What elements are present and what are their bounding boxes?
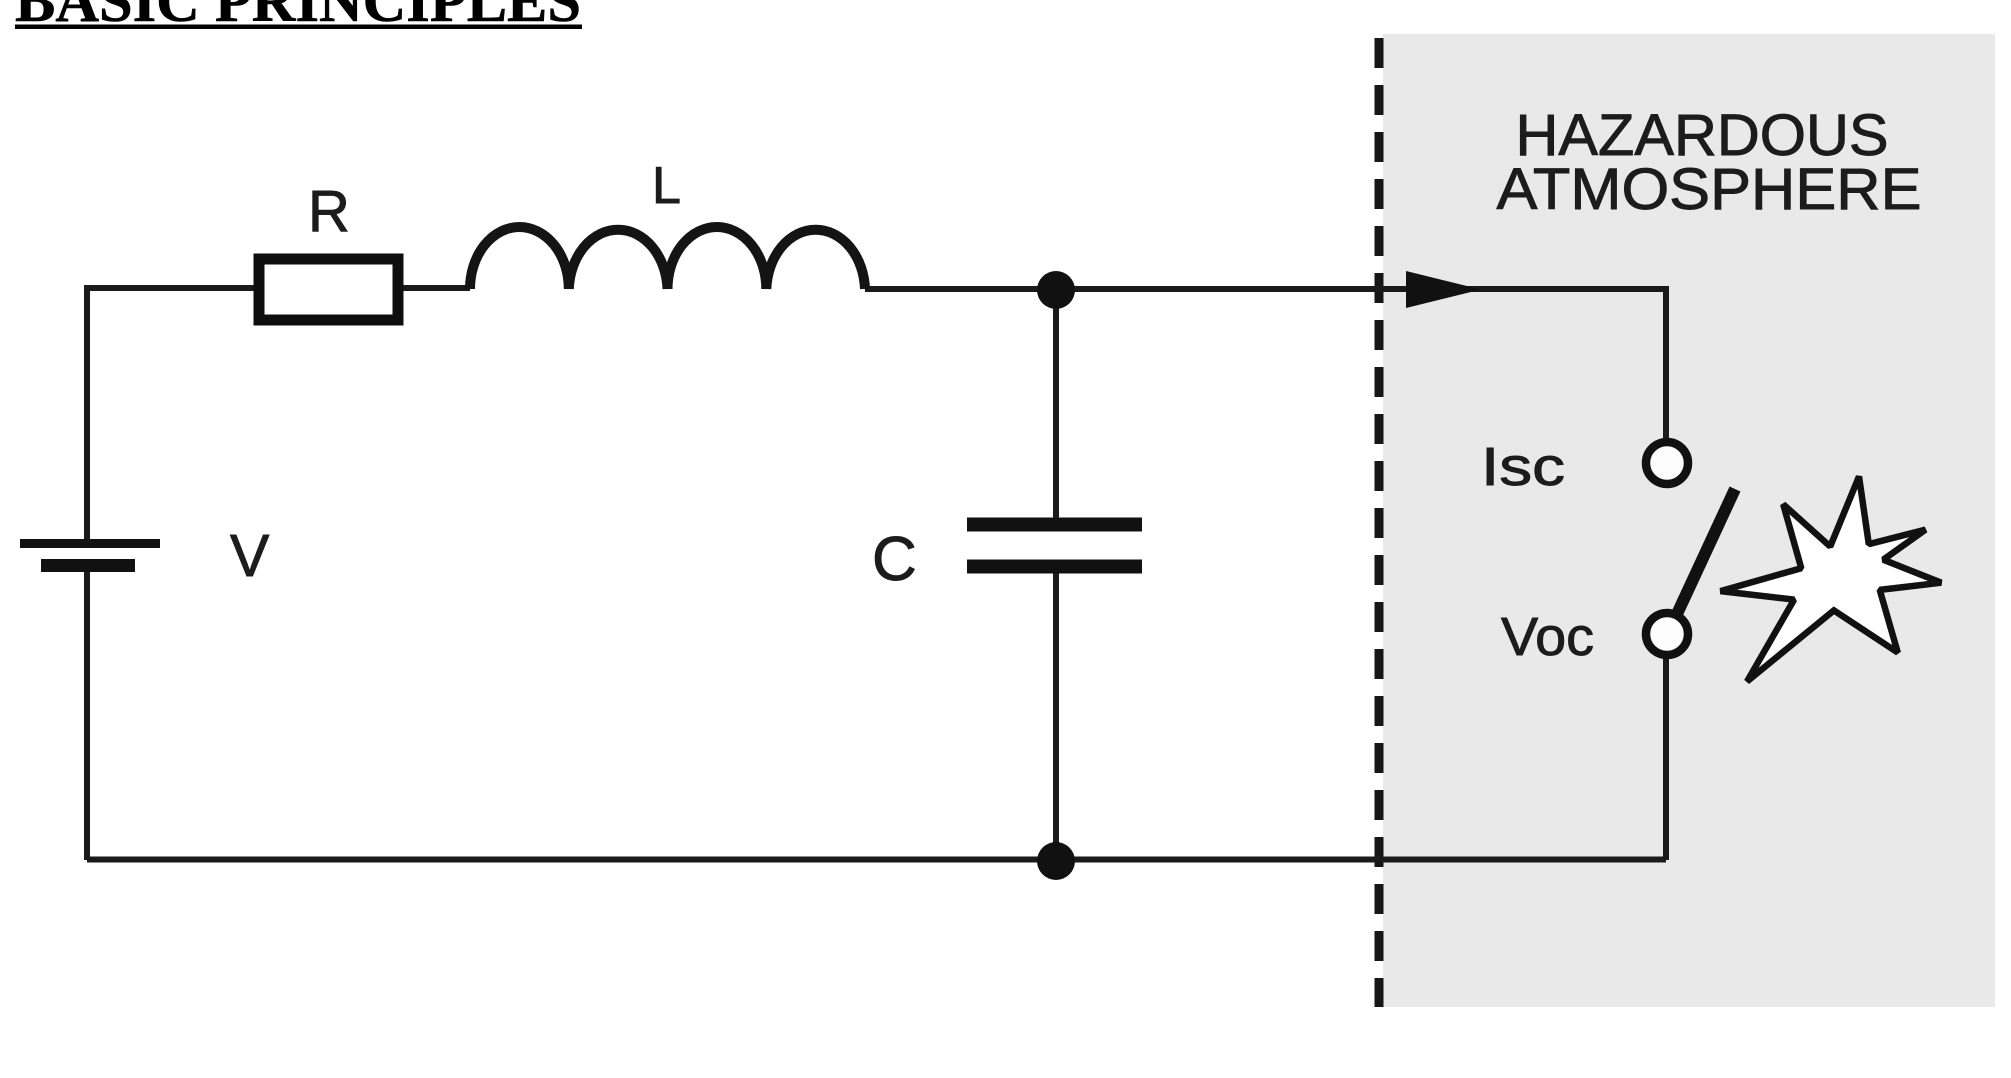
svg-text:V: V <box>230 523 270 589</box>
svg-text:ATMOSPHERE: ATMOSPHERE <box>1497 157 1922 222</box>
svg-text:L: L <box>652 157 681 215</box>
svg-text:Voc: Voc <box>1501 607 1594 667</box>
svg-text:R: R <box>308 179 350 244</box>
svg-text:Isc: Isc <box>1481 437 1565 497</box>
svg-text:C: C <box>872 525 917 594</box>
